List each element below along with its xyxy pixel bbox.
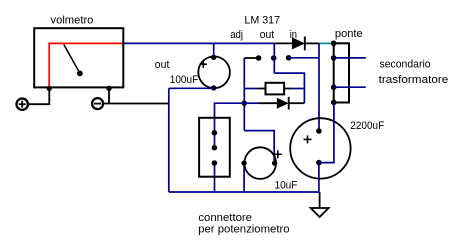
- bridge rectifier ponte box: [334, 43, 349, 102]
- wire: out pin vertical: [273, 43, 275, 73]
- node: voltmeter left junction: [47, 86, 52, 91]
- wire: in pin horizontal: [289, 57, 319, 59]
- svg-text:LM 317: LM 317: [244, 14, 280, 26]
- wire: connector pin3 to bottom rail: [214, 163, 216, 192]
- connector pin 1: [212, 130, 218, 136]
- wire: out pin to right column: [274, 73, 304, 103]
- wire: adj junction to D2: [244, 102, 259, 104]
- pin out dot: [271, 55, 277, 61]
- wire: teal segment to ponte: [319, 42, 334, 44]
- ground: [319, 192, 321, 208]
- wire: secondary AC 2: [334, 86, 366, 88]
- voltmeter needle: [64, 45, 80, 74]
- connector box: [199, 118, 230, 177]
- wire: 100uF bottom to left vertical: [169, 87, 214, 89]
- svg-text:2200uF: 2200uF: [350, 120, 384, 132]
- svg-text:10uF: 10uF: [275, 180, 298, 192]
- wire: 100uF top to rail: [213, 43, 215, 57]
- node: adj junction: [242, 101, 247, 106]
- svg-text:connettore: connettore: [198, 212, 252, 224]
- svg-text:secondario: secondario: [380, 59, 431, 71]
- wire: top output rail blue: [123, 42, 274, 44]
- svg-text:volmetro: volmetro: [51, 14, 94, 26]
- wire: 10uF left to bottom rail: [243, 163, 245, 192]
- resistor R1: [266, 83, 285, 95]
- connector pin 2: [212, 145, 218, 151]
- voltmeter box: [34, 28, 123, 87]
- svg-text:100uF: 100uF: [170, 74, 199, 86]
- svg-text:adj: adj: [230, 29, 243, 41]
- node: ponte pin1: [331, 41, 337, 47]
- capacitor 100uF: [198, 57, 230, 89]
- wire: 2200uF bottom to ponte: [319, 103, 334, 163]
- wire: red voltmeter wire: [49, 43, 123, 88]
- resistor R1 leads: [244, 88, 258, 90]
- pin adj dot: [256, 55, 262, 61]
- svg-text:out: out: [155, 59, 170, 71]
- diode D2: [277, 98, 289, 109]
- diode D1: [292, 37, 305, 49]
- svg-text:trasformatore: trasformatore: [379, 74, 449, 86]
- wire: plus terminal to voltmeter: [28, 88, 49, 104]
- node: ponte pin4: [331, 100, 337, 106]
- wire: left vertical down to bottom rail: [168, 88, 170, 192]
- node: ponte pin2: [331, 55, 337, 61]
- wire: adj vertical: [243, 58, 245, 131]
- terminal +: [17, 99, 28, 110]
- capacitor 10uF: [244, 147, 276, 179]
- wire: secondary AC 1: [334, 57, 366, 59]
- wire: adj pin stub: [244, 57, 258, 59]
- wire: in vertical down to 2200uF: [318, 43, 320, 131]
- node: ponte pin3: [331, 84, 337, 90]
- svg-text:ponte: ponte: [335, 28, 363, 40]
- connector pin 3: [212, 160, 218, 166]
- wire: rail to diode D1 black: [275, 42, 292, 44]
- wire: connector to adj junction: [215, 103, 245, 148]
- diode D2 leads: [259, 102, 277, 104]
- svg-text:per potenziometro: per potenziometro: [198, 223, 289, 235]
- node: voltmeter right junction: [106, 86, 111, 91]
- wire: bottom ground rail: [169, 191, 320, 193]
- wire: minus terminal horizontal: [103, 103, 168, 105]
- capacitor 2200uF: [290, 118, 350, 178]
- wire: 2200uF bottom down to rail: [318, 163, 320, 192]
- wire: minus junction vertical: [108, 88, 110, 103]
- wire: adj node down to 10uF plus: [244, 131, 274, 163]
- pin in dot: [286, 55, 292, 61]
- svg-text:out: out: [260, 29, 274, 41]
- wire: D1 cathode lead: [305, 42, 319, 44]
- terminal -: [92, 98, 103, 109]
